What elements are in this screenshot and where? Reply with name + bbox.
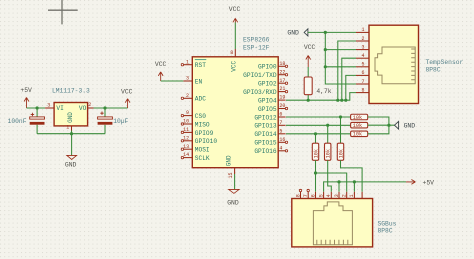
svg-text:LM1117-3.3: LM1117-3.3 [52, 87, 90, 94]
wire GPIO13 to R6 [327, 125, 329, 143]
wire VCC to EN pin [161, 80, 184, 82]
wire R5 to J2 pins 6 and 2 [316, 160, 347, 192]
wire +5V to VI pin [27, 107, 46, 109]
svg-text:5: 5 [362, 62, 365, 68]
sheet origin marker [48, 0, 78, 24]
capacitor C2 10uF [98, 108, 129, 134]
svg-text:17: 17 [279, 78, 285, 84]
connector J2 SGBus 8P8C [292, 199, 397, 247]
wire regulator GND lead [71, 131, 73, 134]
J2 pin 8 [295, 189, 301, 198]
svg-text:6: 6 [279, 112, 282, 118]
J2 shield pin [361, 192, 363, 199]
svg-text:4: 4 [279, 145, 282, 151]
capacitor C1 100nF [8, 108, 45, 134]
svg-text:100nF: 100nF [8, 118, 27, 125]
svg-text:6: 6 [310, 194, 316, 197]
svg-text:7: 7 [279, 120, 282, 126]
svg-text:GPIO4: GPIO4 [258, 98, 277, 105]
svg-text:GPIO9: GPIO9 [195, 130, 214, 137]
J2 pin 6 [310, 192, 316, 199]
chip pin 5 GPIO14 [254, 128, 285, 138]
wire GPIO12 to R2 [286, 116, 351, 118]
svg-text:2: 2 [342, 194, 348, 197]
svg-text:10k: 10k [353, 132, 362, 138]
resistor R7 10k series [337, 143, 344, 160]
power symbol +5V (regulator input) [20, 87, 32, 108]
svg-text:4: 4 [362, 53, 365, 59]
resistor R6 10k series [325, 143, 332, 160]
J1 pin 8 [356, 87, 369, 93]
wire +5V rail to J2 pins 5 3 1 [324, 182, 406, 192]
chip pin 1 RST [181, 59, 206, 69]
global label GND (TempSensor) [287, 29, 308, 37]
svg-text:GPIO16: GPIO16 [254, 148, 277, 155]
svg-text:13: 13 [183, 144, 189, 150]
wire GPIO14 to R4 [286, 133, 351, 135]
svg-text:GPIO3/RXD: GPIO3/RXD [243, 89, 277, 96]
svg-text:15: 15 [228, 172, 234, 178]
J2 modular jack glyph [313, 202, 352, 245]
J1 pin 1 [356, 27, 369, 33]
svg-text:4,7k: 4,7k [316, 88, 331, 95]
power symbol VCC (pull-up) [304, 44, 316, 67]
svg-text:18: 18 [279, 61, 285, 67]
wire GPIO13 to R3 [286, 124, 351, 126]
chip pin 11 GPIO9 [181, 127, 213, 137]
svg-text:1: 1 [362, 27, 365, 33]
svg-text:11: 11 [183, 127, 189, 133]
svg-text:21: 21 [279, 86, 285, 92]
svg-text:GPIO1/TXD: GPIO1/TXD [243, 72, 277, 79]
resistor R3 10k [351, 122, 368, 129]
J1 pin 4 [356, 53, 369, 59]
junction R1 bottom [307, 99, 310, 102]
chip pin 3 EN [183, 76, 202, 86]
J1 modular jack glyph [375, 47, 415, 84]
svg-text:5: 5 [279, 128, 282, 134]
svg-text:GND: GND [226, 155, 233, 166]
svg-text:MISO: MISO [195, 121, 210, 128]
svg-text:2: 2 [362, 36, 365, 42]
svg-text:3: 3 [47, 103, 50, 109]
junction GND at pin 3 [324, 48, 327, 51]
svg-text:GPIO15: GPIO15 [254, 140, 277, 147]
junction C1 top [36, 106, 39, 109]
svg-text:VCC: VCC [304, 44, 316, 51]
svg-text:RST: RST [195, 62, 206, 69]
junction GPIO14 drop [314, 132, 317, 135]
svg-text:VI: VI [56, 105, 64, 112]
junction GND at pin 1 [324, 31, 327, 34]
J1 pin 3 [356, 44, 369, 50]
chip pin 4 GPIO16 [254, 145, 287, 155]
svg-text:6: 6 [362, 70, 365, 76]
svg-text:SGBus: SGBus [378, 220, 397, 227]
chip pin 8 VCC top [230, 49, 237, 72]
J1 pin 5 [356, 62, 369, 68]
svg-text:GND: GND [67, 112, 74, 123]
svg-text:VCC: VCC [155, 61, 167, 68]
junction GPIO13 drop [326, 124, 329, 127]
chip pin 13 MOSI [181, 144, 210, 154]
svg-text:10k: 10k [353, 115, 362, 121]
svg-text:12: 12 [183, 135, 189, 141]
power symbol VCC (EN pin) [155, 61, 167, 81]
junction pin 4 drop [340, 99, 343, 102]
svg-text:8P8C: 8P8C [378, 228, 393, 235]
wire R6 to J2 pin 4 [328, 160, 332, 192]
svg-text:GPIO5: GPIO5 [258, 106, 277, 113]
svg-text:2: 2 [186, 93, 189, 99]
wire ground bus under regulator [37, 133, 105, 135]
wire 10k rail middle to GND label [368, 124, 395, 126]
svg-text:10µF: 10µF [113, 118, 128, 125]
svg-text:22: 22 [279, 69, 285, 75]
wire GND label to J1 pin 1 [308, 31, 356, 33]
junction R5 branch [314, 171, 317, 174]
ground symbol (chip) [227, 189, 239, 206]
wire GND tie to J1 pin 7 [325, 32, 356, 84]
power symbol VCC (regulator output) [121, 88, 133, 108]
svg-text:GPIO0: GPIO0 [258, 64, 277, 71]
svg-text:3: 3 [186, 76, 189, 82]
svg-text:GPIO10: GPIO10 [195, 138, 218, 145]
svg-text:VO: VO [79, 105, 87, 112]
chip pin 21 GPIO3/RXD [243, 86, 288, 96]
chip pin 12 GPIO10 [181, 135, 217, 145]
resistor R2 10k [351, 114, 368, 121]
svg-text:8: 8 [295, 194, 301, 197]
svg-text:VCC: VCC [229, 6, 241, 13]
svg-text:CS0: CS0 [195, 113, 206, 120]
junction +5V pin 1 [353, 180, 356, 183]
svg-text:+5V: +5V [20, 87, 32, 94]
junction +5V pin 3 [337, 180, 340, 183]
connector J1 TempSensor 8P8C [369, 25, 464, 103]
svg-text:SCLK: SCLK [195, 155, 210, 162]
svg-text:ESP-12F: ESP-12F [243, 44, 270, 51]
chip pin 15 GND bottom [226, 155, 235, 189]
chip pin 17 GPIO2 [258, 78, 288, 88]
svg-text:7: 7 [303, 194, 309, 197]
wire GPIO12 to R7 [340, 117, 342, 143]
power symbol +5V (right) [406, 179, 434, 186]
svg-text:19: 19 [279, 95, 285, 101]
svg-text:GND: GND [227, 199, 239, 206]
junction pin 2 drop [336, 99, 339, 102]
voltage regulator U2 LM1117-3.3 [45, 87, 93, 130]
resistor R1 4,7k pull-up [304, 67, 332, 100]
svg-text:3: 3 [362, 44, 365, 50]
junction C2 top [103, 106, 106, 109]
svg-text:2: 2 [88, 102, 91, 108]
svg-text:10k: 10k [353, 123, 362, 129]
wire 10k rail outer [368, 117, 389, 134]
svg-text:VCC: VCC [121, 88, 133, 95]
svg-text:GPIO13: GPIO13 [254, 123, 277, 130]
svg-text:+5V: +5V [423, 179, 435, 186]
J1 pin 2 [356, 36, 369, 42]
J2 pin 7 [303, 189, 309, 198]
wire VCC to chip pin 8 [234, 23, 236, 50]
J1 pin 7 [356, 79, 369, 85]
svg-text:ADC: ADC [195, 96, 206, 103]
ground symbol (regulator) [65, 134, 77, 169]
svg-text:14: 14 [183, 152, 189, 158]
wire J1 pin 4 drop [342, 58, 356, 100]
chip pin 6 GPIO12 [254, 112, 285, 122]
J2 pin 5 [318, 192, 324, 199]
svg-text:10: 10 [183, 119, 189, 125]
IC U1 ESP8266 ESP-12F [192, 37, 278, 168]
wire J1 pin 6 drop [346, 75, 356, 100]
svg-text:MOSI: MOSI [195, 147, 210, 154]
chip pin 7 GPIO13 [254, 120, 285, 130]
wire J1 pin 2 drop [338, 41, 356, 100]
J2 pin 3 [334, 192, 340, 199]
J2 pin 2 [342, 192, 348, 199]
svg-text:8: 8 [230, 50, 233, 56]
junction GPIO12 drop [339, 115, 342, 118]
svg-text:10k: 10k [338, 149, 344, 158]
svg-text:GPIO12: GPIO12 [254, 114, 277, 121]
svg-text:10k: 10k [326, 149, 332, 158]
J2 pin 1 [349, 192, 355, 199]
global label GND (right) [395, 121, 416, 129]
chip pin 2 ADC [181, 93, 206, 103]
junction pin 6 drop [344, 99, 347, 102]
junction GND at pin 5 [324, 65, 327, 68]
power symbol VCC (chip top) [229, 6, 241, 23]
svg-text:5: 5 [318, 194, 324, 197]
svg-text:1: 1 [66, 125, 69, 131]
svg-text:3: 3 [334, 194, 340, 197]
svg-text:8: 8 [362, 87, 365, 93]
chip pin 20 GPIO5 [258, 103, 288, 113]
svg-text:ESP8266: ESP8266 [243, 37, 270, 44]
svg-text:GPIO2: GPIO2 [258, 81, 277, 88]
svg-text:10k: 10k [313, 149, 319, 158]
wire GND tie to J1 pin 5 [325, 66, 356, 68]
J2 pin 4 [326, 192, 332, 199]
resistor R4 10k [351, 131, 368, 138]
svg-text:20: 20 [279, 103, 285, 109]
resistor R5 10k series [312, 143, 319, 160]
svg-text:GND: GND [404, 123, 416, 130]
wire R7 to J2 shield [341, 160, 363, 192]
chip pin 10 MISO [181, 119, 210, 129]
junction pull rail [387, 124, 390, 127]
svg-text:16: 16 [279, 137, 285, 143]
wire VO to VCC [94, 107, 128, 109]
wire GND tie to J1 pin 3 [325, 49, 356, 51]
svg-text:GPIO14: GPIO14 [254, 131, 277, 138]
wire GPIO14 to R5 [315, 134, 317, 143]
junction regulator GND [70, 132, 73, 135]
svg-text:7: 7 [362, 79, 365, 85]
svg-text:8P8C: 8P8C [426, 66, 441, 73]
svg-text:GND: GND [65, 161, 77, 168]
chip pin 19 GPIO4 [258, 95, 286, 105]
wire GPIO4 bus to J1 pin 8 [286, 93, 356, 101]
svg-text:GND: GND [287, 29, 299, 36]
chip pin 16 GPIO15 [254, 137, 287, 147]
svg-text:VCC: VCC [230, 61, 237, 72]
svg-text:EN: EN [195, 78, 203, 85]
svg-text:TempSensor: TempSensor [426, 59, 464, 66]
chip pin 22 GPIO1/TXD [243, 69, 288, 79]
svg-text:1: 1 [349, 194, 355, 197]
chip pin 18 GPIO0 [258, 61, 288, 71]
svg-text:1: 1 [186, 59, 189, 65]
svg-text:9: 9 [186, 110, 189, 116]
chip pin 14 SCLK [181, 152, 210, 162]
chip pin 9 CS0 [181, 110, 206, 120]
J1 pin 6 [356, 70, 369, 76]
svg-text:4: 4 [326, 194, 332, 197]
